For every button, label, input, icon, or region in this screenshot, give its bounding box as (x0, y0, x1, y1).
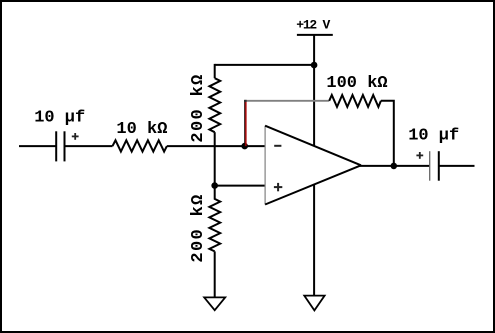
capacitor C1 10uF input (56, 131, 64, 161)
wire R3 to ground (214, 251, 216, 297)
svg-text:10 µf: 10 µf (34, 108, 85, 127)
wire R2 to divider node (214, 132, 216, 185)
ground symbol left (204, 297, 225, 310)
ground symbol center (304, 296, 324, 311)
wire top rail from R2 to supply (215, 64, 314, 66)
node inverting input junction dot (241, 143, 248, 150)
capacitor C2 10uF output (430, 151, 439, 181)
wire C1 to R1 (65, 145, 113, 147)
op-amp plus input mark (274, 183, 282, 191)
wire op-amp bottom to ground (313, 185, 315, 296)
resistor R2 200k upper (209, 78, 220, 132)
C2 polarity plus (416, 152, 423, 159)
supply bar (297, 34, 333, 36)
C1 polarity plus (72, 133, 79, 140)
resistor R4 100k (329, 95, 381, 107)
op-amp minus input mark (274, 145, 281, 147)
svg-text:10 µf: 10 µf (408, 127, 459, 146)
node supply junction dot (311, 62, 318, 69)
svg-text:+12 V: +12 V (296, 18, 330, 33)
resistor R3 200k lower (209, 186, 220, 252)
node divider junction dot (211, 182, 218, 189)
wire output (360, 165, 430, 167)
svg-text:200 kΩ: 200 kΩ (189, 193, 208, 262)
wire output lead (439, 165, 475, 167)
op-amp U1 top edge (265, 126, 361, 166)
op-amp U1 bottom edge (265, 165, 361, 204)
wire supply rail down to op-amp top (313, 35, 315, 146)
svg-text:10 kΩ: 10 kΩ (116, 120, 167, 139)
op-amp U1 body (265, 126, 361, 205)
wire feedback vertical (red) (245, 100, 246, 146)
resistor R1 10k (113, 140, 167, 151)
svg-text:200 kΩ: 200 kΩ (189, 73, 208, 142)
wire feedback horizontal (gray) (245, 100, 329, 102)
op-amp U1 left edge (gray) (264, 126, 266, 205)
wire R4 right lead (381, 101, 394, 166)
node output junction dot (391, 163, 398, 170)
wire input lead (19, 145, 56, 147)
wire R1 to inverting input (167, 145, 265, 147)
svg-text:100 kΩ: 100 kΩ (326, 74, 387, 93)
wire noninverting input stub (215, 185, 265, 187)
node feedback corner (244, 100, 247, 102)
wire R2 top lead (214, 64, 216, 78)
